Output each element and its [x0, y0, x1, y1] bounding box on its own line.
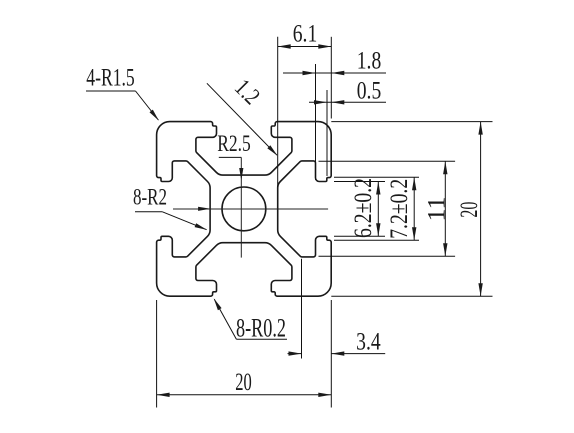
dimension 11 (cavity width) [319, 161, 456, 256]
svg-text:6.2±0.2: 6.2±0.2 [348, 178, 377, 238]
dimension 6.1 (slot depth) [278, 18, 332, 187]
svg-text:4-R1.5: 4-R1.5 [86, 65, 135, 92]
profile outline (2020 extrusion cross-section) [157, 122, 332, 297]
dimension 3.4 [288, 259, 386, 359]
dimension 1.8 (lip depth) [283, 45, 386, 180]
svg-text:20: 20 [235, 367, 252, 396]
dimension 0.5 (step depth) [309, 75, 386, 176]
dimension 6.2±0.2 (slot opening) [334, 178, 385, 238]
svg-text:1.8: 1.8 [357, 45, 382, 74]
svg-text:20: 20 [454, 202, 483, 218]
label 8-R2 (cavity fillets) [133, 185, 211, 230]
label R2.5 (center hole) [217, 131, 251, 181]
dimension 20 (overall height) [331, 122, 492, 297]
svg-text:8-R2: 8-R2 [133, 185, 167, 211]
dimension 20 (overall width) [157, 300, 332, 408]
label 4-R1.5 (corner radius) [86, 65, 159, 121]
label 8-R0.2 (step fillets) [214, 298, 287, 342]
svg-text:8-R0.2: 8-R0.2 [236, 314, 286, 343]
vertical centerline [240, 157, 242, 257]
horizontal centerline [173, 208, 328, 210]
svg-text:11: 11 [422, 197, 451, 222]
svg-text:1.2: 1.2 [229, 75, 264, 110]
center hole R2.5 [222, 187, 266, 231]
dimension 7.2±0.2 (opening at face) [334, 177, 419, 240]
svg-text:0.5: 0.5 [357, 75, 382, 104]
svg-text:R2.5: R2.5 [217, 131, 251, 157]
label 1.2 (wall thickness) [207, 75, 278, 156]
svg-text:3.4: 3.4 [356, 326, 381, 355]
svg-text:6.1: 6.1 [293, 18, 318, 47]
svg-text:7.2±0.2: 7.2±0.2 [384, 179, 413, 239]
